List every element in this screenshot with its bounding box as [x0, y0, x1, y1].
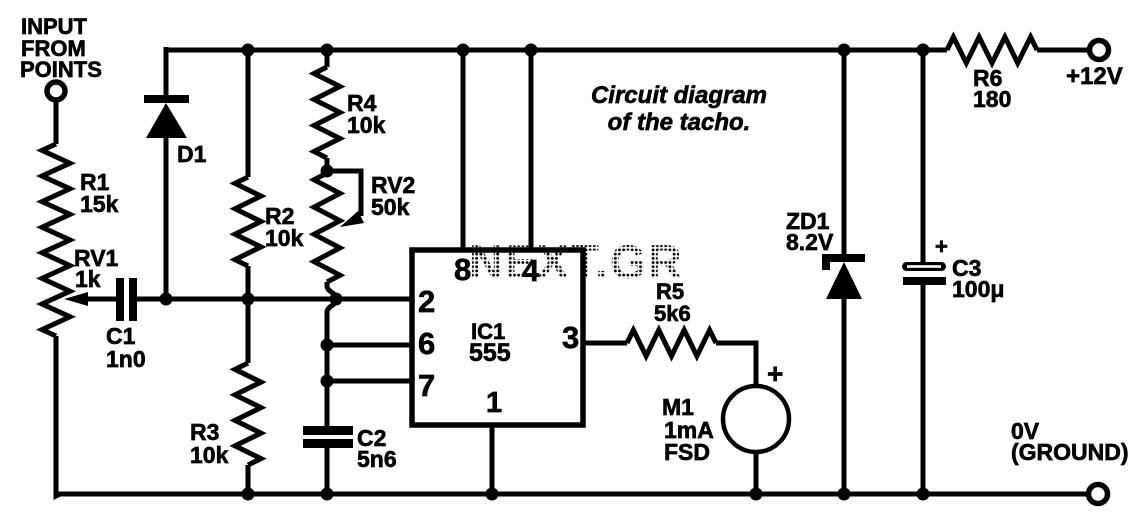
wire R4 bottom to RV2 top node: [325, 158, 330, 173]
label ZD1 value 8.2V: [786, 208, 834, 255]
wire C3 bottom to 0V rail: [921, 285, 926, 494]
junction on 0V rail x=756: [750, 488, 763, 501]
svg-text:1n0: 1n0: [106, 346, 146, 372]
watermark NEXT.GR: [469, 235, 683, 288]
RV2 wiper arrowhead: [340, 211, 364, 227]
label D1: [177, 141, 207, 167]
wire pin 7 net: [327, 379, 412, 384]
svg-text:FSD: FSD: [664, 439, 710, 465]
RV1 wiper arrowhead: [64, 292, 88, 306]
wire pin 1 to 0V rail: [490, 425, 495, 494]
svg-text:4: 4: [522, 253, 540, 288]
junction on 0V rail x=923: [917, 488, 930, 501]
svg-text:of the tacho.: of the tacho.: [608, 109, 751, 136]
svg-text:10k: 10k: [190, 442, 229, 468]
label C1 value 1n0: [106, 323, 146, 372]
meter plus sign: [767, 358, 783, 389]
meter M1 circle: [723, 386, 789, 452]
junction on +V rail x=923: [917, 44, 930, 57]
wire ZD1 column: top rail to zener: [842, 47, 847, 254]
capacitor C2 plates: [303, 426, 353, 448]
diode D1 cathode bar: [144, 95, 189, 103]
pin number 3: [562, 320, 579, 355]
label RV1 value 1k: [74, 245, 119, 292]
node A junction (D1/C1): [160, 293, 173, 306]
resistor R2: [235, 177, 261, 266]
svg-text:Circuit diagram: Circuit diagram: [591, 82, 767, 109]
label 0V (GROUND): [1011, 418, 1129, 465]
junction pin7 net: [321, 375, 334, 388]
node B junction (R2/R3/pin2): [242, 293, 255, 306]
wire R3 bottom to 0V rail: [246, 465, 251, 494]
zener diode ZD1 cathode bar: [822, 254, 865, 270]
label IC1 555: [469, 319, 511, 367]
terminal: input from points: [47, 82, 65, 100]
wire D1 column: top rail down to D1 cathode: [164, 47, 169, 96]
svg-text:2: 2: [418, 284, 435, 319]
resistor R4: [314, 67, 340, 158]
svg-text:1k: 1k: [75, 266, 101, 292]
junction on 0V rail x=844: [838, 488, 851, 501]
junction on 0V rail x=248: [242, 488, 255, 501]
wire bottom 0V rail: [56, 492, 1088, 497]
junction on +V rail x=844: [838, 44, 851, 57]
svg-text:8: 8: [454, 252, 471, 287]
label R6 value 180: [973, 65, 1011, 112]
svg-text:+12V: +12V: [1066, 63, 1123, 90]
capacitor C3 bottom plate: [903, 277, 946, 285]
junction on +V rail x=248: [242, 44, 255, 57]
wire meter M1 to 0V rail: [754, 451, 759, 494]
wire ZD1 anode to 0V rail: [842, 299, 847, 494]
svg-text:(GROUND): (GROUND): [1011, 439, 1129, 465]
svg-text:555: 555: [469, 339, 511, 367]
wire pin 4 to top rail: [529, 47, 534, 252]
svg-text:10k: 10k: [347, 112, 386, 138]
svg-text:10k: 10k: [265, 225, 304, 251]
label C3 value 100u: [952, 255, 1004, 302]
caption: Circuit diagram of the tacho: [591, 82, 767, 136]
wire C2 bottom to 0V rail: [325, 447, 330, 494]
junction on 0V rail x=492: [486, 488, 499, 501]
wire R2 column: top rail to R2: [246, 47, 251, 177]
svg-text:15k: 15k: [80, 191, 119, 217]
resistor R6: [947, 37, 1037, 63]
junction blob at jog crossing: [330, 293, 343, 306]
terminal: 0V ground: [1089, 485, 1108, 504]
svg-text:8.2V: 8.2V: [786, 229, 834, 255]
pin number 7: [418, 368, 435, 403]
wire left column: RV1 bottom to 0V rail: [56, 336, 60, 496]
op-amp: IC1 555 timer box: [412, 250, 583, 425]
wire pin 6 net: [327, 343, 412, 348]
wire node A to node B (pin2 net): [166, 297, 412, 302]
label C2 value 5n6: [357, 425, 397, 472]
wire D1 anode down to node A: [164, 137, 169, 299]
svg-text:+: +: [767, 358, 783, 389]
svg-text:5k6: 5k6: [654, 301, 691, 326]
wire C3 column: top rail to C3: [921, 47, 926, 263]
svg-text:1: 1: [486, 387, 502, 419]
potentiometer RV2 body: [314, 173, 340, 282]
wire R2 bottom to node B: [246, 266, 251, 299]
label R2 value 10k: [265, 203, 304, 251]
label M1 1mA FSD: [662, 394, 714, 465]
C3 plus sign: [935, 234, 948, 259]
svg-text:NEXT.GR: NEXT.GR: [469, 235, 683, 288]
zener diode ZD1 triangle: [826, 262, 862, 299]
resistor R5: [627, 330, 716, 356]
wire RV1 wiper to C1: [74, 297, 117, 302]
junction pin6 net: [321, 339, 334, 352]
svg-text:POINTS: POINTS: [20, 57, 102, 82]
wire node B to R3 top: [246, 299, 251, 363]
junction on +V rail x=531: [525, 44, 538, 57]
label +12V: [1066, 63, 1123, 90]
resistor R3: [235, 363, 261, 465]
wire R5 to meter M1: [716, 343, 756, 387]
capacitor C3 top plate (+): [902, 262, 946, 271]
label R3 value 10k: [190, 419, 229, 468]
label RV2 value 50k: [371, 172, 415, 220]
pin number 8: [454, 252, 471, 287]
junction on +V rail x=463: [457, 44, 470, 57]
wire RV2 bottom with jog over pin2 net: [327, 282, 337, 345]
pin number 4: [522, 253, 540, 288]
wire C1 to node A: [137, 297, 166, 302]
junction on 0V rail x=327: [321, 488, 334, 501]
svg-text:100μ: 100μ: [952, 276, 1004, 302]
pin number 6: [418, 326, 435, 361]
resistor R1 / potentiometer RV1 body: [42, 144, 70, 336]
svg-text:+: +: [935, 234, 948, 259]
label R4 value 10k: [347, 90, 386, 138]
diode D1 triangle: [146, 103, 187, 138]
wire R4 column: top rail to R4: [325, 47, 330, 67]
pin number 1: [486, 387, 502, 419]
capacitor C1 plates: [116, 278, 137, 321]
wire RV2 column down to C2: [325, 345, 330, 427]
wire pin 8 to top rail: [461, 47, 466, 252]
wire left column: input terminal to R1: [54, 99, 59, 144]
wire R6 to +12V terminal: [1037, 48, 1089, 53]
svg-text:50k: 50k: [371, 194, 410, 220]
RV2 wiper wire: [327, 171, 361, 216]
svg-text:7: 7: [418, 368, 435, 403]
svg-text:3: 3: [562, 320, 579, 355]
wire pin 3 to R5: [583, 341, 627, 346]
label R5 value 5k6: [654, 279, 691, 326]
terminal: +12V: [1090, 41, 1109, 60]
svg-text:D1: D1: [177, 141, 207, 167]
wire top +V rail: [166, 48, 947, 53]
junction R4/RV2 tap: [321, 165, 334, 178]
svg-text:6: 6: [418, 326, 435, 361]
label INPUT FROM POINTS: [20, 14, 102, 82]
svg-text:5n6: 5n6: [357, 446, 397, 472]
pin number 2: [418, 284, 435, 319]
svg-text:180: 180: [973, 86, 1011, 112]
junction on +V rail x=327: [321, 44, 334, 57]
label R1 value 15k: [80, 169, 119, 217]
